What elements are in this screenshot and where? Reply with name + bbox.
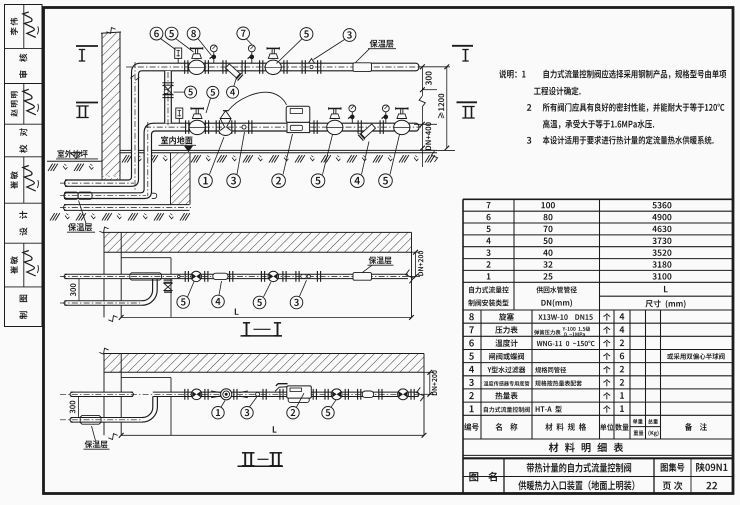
indoor floor line + label bbox=[161, 136, 193, 144]
strainer Y2 bbox=[358, 123, 376, 141]
title-block sidebar bbox=[5, 5, 43, 327]
strainer Y1 bbox=[225, 63, 243, 81]
I-I insulation box right bbox=[353, 273, 372, 281]
II-II main run bbox=[153, 392, 419, 396]
I-I 300 dim bbox=[78, 276, 80, 303]
section II-II slab hatched bbox=[104, 354, 424, 373]
control valve CV1 bbox=[215, 120, 217, 134]
dimension table bbox=[463, 198, 732, 200]
I-I ref circles bbox=[177, 296, 190, 309]
foundation strip bbox=[171, 153, 191, 205]
I-I strainer capsule bbox=[213, 273, 228, 279]
I-I centerline vent circle bbox=[178, 275, 181, 278]
globe valve V5a bbox=[190, 47, 202, 49]
II-II heat meter plan bbox=[287, 386, 312, 398]
globe valve V5c bbox=[191, 108, 203, 110]
ref circles 5 / 4 mid row bbox=[207, 86, 219, 98]
II-II title bbox=[244, 453, 246, 466]
II-II centerline bbox=[60, 393, 421, 395]
II-II insulation label bbox=[85, 440, 108, 448]
header row of material table bbox=[463, 438, 732, 440]
elevation: underground pipe P3 bbox=[64, 205, 190, 211]
heat meter HM1 bbox=[286, 106, 310, 122]
II-II pipe end break bbox=[416, 387, 424, 401]
flanges bbox=[184, 60, 186, 74]
I-I lower pipe with elbow bbox=[65, 301, 143, 306]
gauge PG4 bbox=[385, 108, 387, 123]
I-I DN+200 dim bbox=[412, 251, 421, 253]
soil hatch below floor bbox=[122, 155, 132, 162]
gauge PG1 with cock bbox=[213, 48, 215, 63]
material table title row bbox=[549, 443, 623, 453]
I-I sensor fitting bbox=[301, 274, 307, 278]
section I-I slab hatched bbox=[104, 232, 412, 252]
insulation labels elevation bbox=[370, 40, 394, 48]
globe valve V5b bbox=[267, 47, 279, 49]
leaders top bbox=[161, 39, 176, 50]
sensor socket S1 bbox=[309, 59, 315, 64]
II-II ref circles bbox=[212, 407, 224, 419]
I-I insulation label bbox=[369, 256, 392, 264]
ref circles bottom row bbox=[199, 174, 213, 188]
I-I L dim bbox=[121, 316, 411, 318]
pipe P2 + riser C + lower return run bbox=[64, 123, 419, 198]
section marker I (right) bbox=[452, 45, 473, 47]
flanges bbox=[222, 60, 224, 74]
insulation boxes on P2 bbox=[65, 192, 78, 199]
II-II expander bbox=[239, 391, 248, 393]
I-I title bbox=[246, 323, 248, 336]
ref circles top bbox=[150, 27, 163, 40]
II-II strainer capsule bbox=[362, 391, 374, 398]
II-II insulation box lower bbox=[80, 415, 101, 424]
I-I niche lines bbox=[121, 257, 171, 259]
heat-meter cable bbox=[228, 92, 287, 111]
globe valve V5d bbox=[329, 108, 341, 110]
hatch band break mark bbox=[431, 151, 437, 162]
dim table header bbox=[463, 309, 732, 311]
small capped stub near riser C bbox=[152, 193, 157, 198]
right-side dimensions of elevation bbox=[419, 66, 450, 68]
globe valve V5e bbox=[396, 108, 408, 110]
gauge PG2 with cock bbox=[251, 48, 253, 63]
section marker I (left) bbox=[76, 45, 98, 47]
II-II components bbox=[184, 389, 186, 400]
II-II sensor circle bbox=[256, 392, 260, 396]
I-I wall edge lines bbox=[103, 232, 105, 317]
II-II L dim bbox=[121, 434, 424, 436]
sensor socket S2 bbox=[242, 125, 246, 129]
II-II niche bbox=[121, 377, 171, 379]
bottom title bar bbox=[463, 476, 732, 478]
material table bbox=[463, 322, 732, 324]
bypass valve V5 on riser bbox=[162, 82, 173, 84]
I-I centerline bbox=[60, 275, 412, 277]
II-II reducer bbox=[211, 391, 221, 393]
outdoor ground bbox=[57, 150, 87, 158]
leaders bottom bbox=[210, 137, 225, 174]
thermometer T2 bbox=[178, 118, 180, 123]
section marker II (right) bbox=[457, 101, 478, 103]
gauge PG3 bbox=[351, 108, 353, 123]
weld ticks riser A bbox=[130, 75, 134, 78]
notes text bbox=[499, 70, 525, 79]
elevation: centerlines bbox=[126, 66, 421, 68]
section marker II (left) bbox=[76, 102, 98, 104]
I-I ball valve 2 bbox=[268, 271, 278, 281]
II-II 300 dim bbox=[78, 394, 80, 420]
I-I insulation box at wall bbox=[130, 273, 162, 280]
I-I drain cock bbox=[164, 279, 173, 281]
I-I main pipe bbox=[65, 274, 409, 278]
elevation: wall footing stipple bbox=[102, 175, 120, 186]
I-I flanges+valve bbox=[184, 271, 186, 282]
II-II lower entry pipe bbox=[71, 418, 143, 423]
II-II control valve plan (concentric) bbox=[221, 389, 232, 400]
pipe P1 + riser A + upper supply run bbox=[65, 63, 419, 186]
thermometer T1 bbox=[177, 58, 179, 63]
elevation: wall bbox=[102, 33, 120, 175]
II-II wall edges bbox=[103, 354, 105, 436]
II-II DN+200 dim bbox=[424, 371, 434, 373]
I-I pipe end break bbox=[406, 270, 414, 284]
hatch under P3 bbox=[50, 213, 60, 220]
ref circle bypass valve bbox=[185, 86, 197, 98]
II-II upper-left capped pipe bbox=[71, 392, 134, 396]
insulation box upper run bbox=[353, 63, 372, 72]
bypass riser B bbox=[165, 71, 172, 123]
